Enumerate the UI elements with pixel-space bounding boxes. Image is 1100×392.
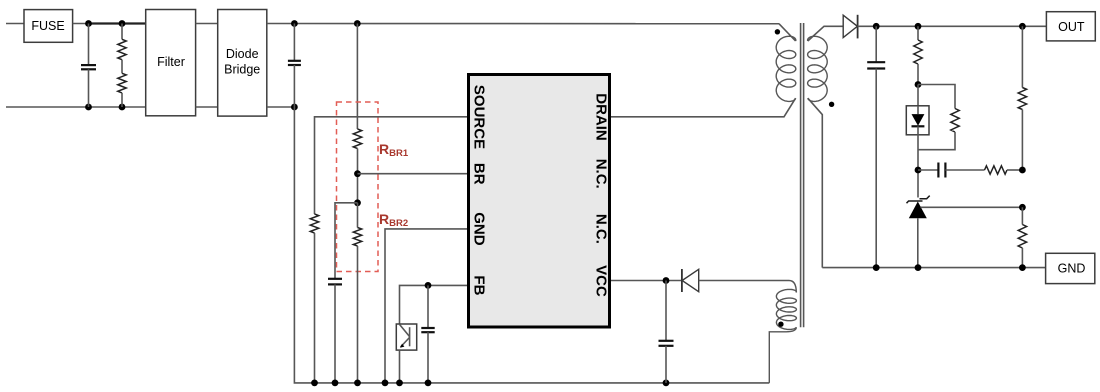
transformer aux winding (776, 289, 796, 329)
Filter block (146, 10, 196, 116)
node junction discharge-R top (119, 20, 126, 27)
wire filter to bridge top (196, 23, 218, 25)
node opto-branch top (915, 23, 922, 30)
wire opto emitter to bus (399, 350, 401, 383)
wire filter to bridge bottom (196, 106, 218, 108)
wire RBR stack drop (356, 24, 358, 130)
node bus junction FB cap (425, 380, 432, 387)
wire opto LED branch (917, 85, 919, 106)
capacitor RBR (328, 279, 342, 383)
wire aux top lead (789, 281, 796, 293)
transformer core (801, 23, 804, 327)
transformer primary winding (776, 36, 796, 101)
wire top rail to primary (779, 24, 795, 41)
opto transistor box (396, 324, 416, 350)
node out-cap top (873, 23, 880, 30)
wire output rail (858, 25, 1047, 27)
svg-text:BR: BR (471, 163, 488, 185)
node bus junction VCC cap (663, 380, 670, 387)
wire bias branch right (918, 85, 955, 109)
primary phase dot (775, 29, 780, 34)
node junction X-cap top (85, 20, 92, 27)
wire RBR1 to BR node (357, 149, 359, 203)
node junction discharge-R bottom (119, 104, 126, 111)
capacitor X-cap (81, 24, 96, 108)
node FB cap junction (425, 282, 432, 289)
node junction bulk-cap top (291, 20, 298, 27)
node bus junction RBR-cap (332, 380, 339, 387)
aux phase dot (778, 322, 783, 327)
capacitor output (867, 26, 885, 267)
OUT terminal box (1046, 12, 1095, 41)
node divider top (1019, 23, 1026, 30)
wire AC input line bottom (6, 106, 146, 108)
capacitor FB (421, 285, 434, 383)
svg-text:DRAIN: DRAIN (593, 93, 610, 141)
wire bridge output top rail (267, 23, 780, 25)
wire secondary bottom drop (808, 98, 823, 267)
node gnd rail divider (1019, 264, 1026, 271)
svg-text:FUSE: FUSE (31, 19, 64, 33)
capacitor VCC (659, 281, 674, 383)
svg-text:N.C.: N.C. (593, 159, 610, 189)
node junction RBR stack top (354, 20, 361, 27)
node divider ref junction (1019, 204, 1026, 211)
fuse FUSE box (24, 10, 73, 43)
node junction X-cap bottom (85, 104, 92, 111)
wire LED to tee (917, 135, 919, 198)
resistor RBR1 (353, 129, 361, 149)
svg-text:GND: GND (471, 212, 488, 246)
capacitor bulk (288, 24, 301, 108)
node bus junction RBR2 (354, 380, 361, 387)
highlight box RBR dashed (337, 102, 379, 272)
resistor output top (914, 26, 922, 84)
resistor source branch (310, 214, 318, 383)
svg-text:SOURCE: SOURCE (471, 85, 488, 149)
wire bulk return to bottom bus (294, 107, 769, 383)
resistor divider lower (1018, 207, 1026, 267)
node bus junction GND pin (382, 380, 389, 387)
wire bridge output bottom (267, 106, 295, 108)
svg-text:N.C.: N.C. (593, 214, 610, 244)
resistor divider upper (1018, 26, 1026, 170)
wire GND pin (385, 229, 468, 383)
svg-text:Bridge: Bridge (224, 63, 260, 77)
transformer secondary winding (808, 36, 828, 101)
wire branch to RBR cap (335, 203, 358, 279)
wire TL431 ref to divider (921, 206, 1023, 208)
Diode Bridge block (218, 10, 267, 117)
svg-text:FB: FB (471, 275, 488, 295)
wire FB pin (400, 285, 469, 324)
GND terminal box (1046, 253, 1095, 283)
node junction cap branch (354, 199, 361, 206)
node junction bulk-cap bottom (291, 104, 298, 111)
wire secondary ground rail (822, 267, 1045, 269)
node gnd rail zener (915, 264, 922, 271)
node gnd rail cap (873, 264, 880, 271)
resistor opto parallel (918, 109, 959, 150)
node bus junction source-R (311, 380, 318, 387)
svg-text:VCC: VCC (593, 265, 610, 297)
svg-text:OUT: OUT (1058, 20, 1085, 34)
resistor RBR2 (353, 203, 361, 383)
zener TL431 (907, 196, 930, 268)
wire DRAIN to primary (611, 98, 796, 117)
resistor discharge lower (118, 60, 126, 107)
wire aux bottom lead (769, 327, 796, 383)
node bias junction (915, 81, 922, 88)
secondary phase dot (829, 102, 834, 107)
diode output rectifier (843, 15, 857, 39)
diode VCC rectifier (682, 269, 789, 292)
capacitor feedback series (918, 163, 985, 178)
resistor discharge upper (118, 24, 126, 60)
wire AC input line top (6, 23, 24, 25)
node feedback cap tee (915, 167, 922, 174)
wire X-cap node to filter top heavy (89, 22, 146, 24)
svg-text:Filter: Filter (157, 55, 185, 69)
wire VCC pin (611, 280, 682, 282)
IC U1 body (469, 75, 610, 328)
wire BR pin (358, 173, 469, 175)
node divider fb junction (1019, 167, 1026, 174)
wire fuse to filter top (73, 23, 90, 25)
node BR junction (354, 170, 361, 177)
node bus junction opto emitter (396, 380, 403, 387)
svg-text:Diode: Diode (226, 47, 259, 61)
resistor feedback series (985, 166, 1023, 174)
opto LED box (906, 106, 929, 135)
wire secondary top to diode (808, 26, 843, 41)
wire SOURCE pin (315, 117, 469, 214)
node VCC cap junction (663, 277, 670, 284)
svg-text:GND: GND (1058, 261, 1086, 275)
